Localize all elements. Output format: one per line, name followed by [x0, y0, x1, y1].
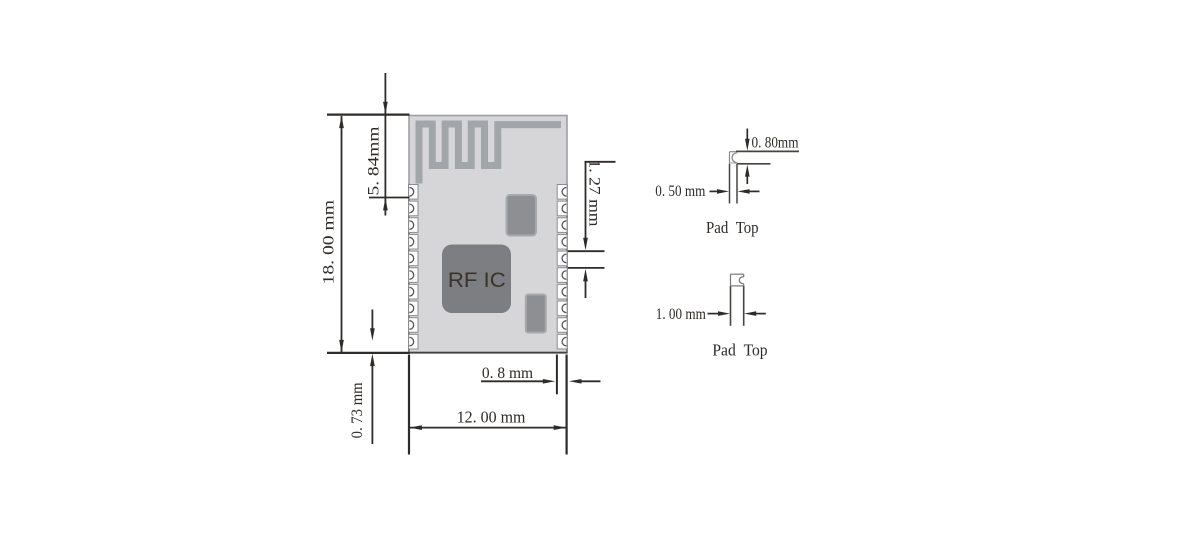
detail 1 caption Pad Top	[706, 218, 759, 237]
svg-text:0. 50 mm: 0. 50 mm	[655, 183, 705, 200]
svg-text:Pad Top: Pad Top	[712, 341, 767, 360]
module body	[408, 116, 567, 353]
detail 2 caption Pad Top	[712, 341, 767, 360]
detail 1 dimension 0.80 mm	[745, 129, 799, 185]
pad top detail 1 outline	[729, 151, 799, 203]
svg-text:RF IC: RF IC	[448, 268, 506, 292]
svg-text:0. 73 mm: 0. 73 mm	[349, 382, 366, 438]
svg-text:Pad Top: Pad Top	[706, 218, 759, 237]
dimension 18.00 mm left height	[320, 115, 409, 353]
RF IC U1	[442, 245, 511, 314]
detail 2 dimension 1.00 mm	[656, 306, 766, 323]
svg-text:0. 80mm: 0. 80mm	[752, 135, 799, 152]
svg-text:5. 84mm: 5. 84mm	[365, 126, 382, 196]
svg-text:18. 00 mm: 18. 00 mm	[320, 199, 337, 284]
svg-text:0. 8 mm: 0. 8 mm	[482, 365, 534, 382]
right castellation pads	[557, 185, 567, 349]
pad top detail 2 outline	[730, 274, 743, 326]
dimension 0.8 mm pad width	[481, 355, 601, 395]
svg-text:12. 00 mm: 12. 00 mm	[457, 408, 526, 427]
dimension 5.84 mm antenna height	[365, 73, 409, 216]
dimension 1.27 mm pad pitch	[568, 160, 616, 299]
detail 1 dimension 0.50 mm	[655, 183, 759, 200]
antenna trace	[419, 124, 561, 184]
dimension 0.73 mm bottom margin	[349, 310, 375, 445]
chip C1	[507, 195, 537, 236]
dimension 12.00 mm width	[409, 355, 567, 455]
chip C2	[526, 295, 546, 333]
svg-text:1. 27 mm: 1. 27 mm	[586, 160, 603, 228]
left castellation pads	[409, 185, 418, 349]
svg-text:1. 00 mm: 1. 00 mm	[656, 306, 706, 323]
